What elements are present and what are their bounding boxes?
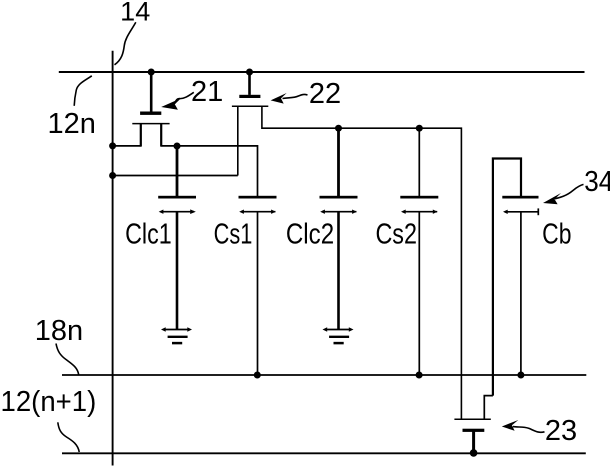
svg-text:Cs2: Cs2 bbox=[375, 219, 417, 251]
node dot Cs2 on line 18n bbox=[416, 372, 423, 379]
svg-text:22: 22 bbox=[309, 78, 341, 110]
arrowhead for label 34 bbox=[543, 193, 561, 204]
leader curve from label 18n bbox=[56, 344, 79, 375]
transistor Q22 drain stub bbox=[248, 71, 251, 95]
svg-text:14: 14 bbox=[120, 0, 150, 26]
transistor Q21 right source leg bbox=[160, 124, 162, 147]
capacitor Cb bottom lead down to line 18n bbox=[520, 212, 522, 375]
node dot wire A at Clc1 tap bbox=[174, 143, 181, 150]
transistor Q23 source bar bbox=[463, 429, 485, 432]
wire jog from staple to Q23 gate bbox=[484, 396, 493, 420]
node dot wire C at Cs2 bbox=[416, 125, 423, 132]
capacitor Cs1 bottom plate with end arrows bbox=[241, 211, 275, 213]
capacitor Clc2 bottom plate with end arrows bbox=[322, 211, 356, 213]
arrow tail for label 23 bbox=[513, 427, 545, 433]
ground symbol under Clc1 : bottom bar bbox=[172, 342, 182, 345]
svg-text:Clc2: Clc2 bbox=[286, 219, 334, 251]
capacitor Clc1 bottom lead to ground (thick) bbox=[176, 212, 179, 330]
capacitor Clc1 top lead (thick) bbox=[176, 146, 179, 196]
wire B (rail to Q22 gate leg) bbox=[113, 175, 238, 177]
svg-text:Cs1: Cs1 bbox=[214, 219, 253, 251]
arrow tail for label 34 bbox=[555, 184, 584, 198]
wire gate-line 12(n+1) (bottom horizontal rail) bbox=[62, 452, 586, 454]
leader curve from label 12(n+1) bbox=[58, 422, 79, 452]
arrowhead for label 22 bbox=[271, 93, 287, 104]
wire Cb staple (down-left of Cb to Q23 gate) bbox=[493, 159, 521, 396]
svg-text:18n: 18n bbox=[35, 315, 83, 347]
wire A left segment (rail to Q21 left leg) bbox=[113, 145, 141, 147]
wire gate-line 18n (middle horizontal rail) bbox=[62, 374, 586, 376]
capacitor Clc1 bottom plate with end arrows bbox=[161, 211, 195, 213]
arrow tail for label 21 bbox=[175, 92, 194, 103]
leader curve from label 14 bbox=[115, 22, 136, 65]
svg-text:Clc1: Clc1 bbox=[125, 219, 172, 251]
transistor Q23 gate channel line bbox=[454, 418, 490, 420]
node dot wire B at rail bbox=[109, 172, 116, 179]
ground symbol under Clc2 : top bar with end arrows bbox=[325, 329, 352, 331]
capacitor Cs2 bottom plate with end arrows bbox=[403, 211, 437, 213]
node dot Q21 drain on line 14 bbox=[148, 69, 155, 76]
capacitor Cs2 top plate bbox=[400, 196, 438, 199]
svg-text:Cb: Cb bbox=[542, 219, 571, 251]
capacitor Clc2 top lead (thick) bbox=[337, 128, 340, 196]
node dot wire A at rail bbox=[109, 142, 116, 149]
capacitor Clc2 bottom lead to ground (thick) bbox=[337, 212, 340, 330]
node dot Q22 drain on line 14 bbox=[246, 69, 253, 76]
capacitor Clc1 top plate bbox=[158, 196, 196, 199]
wire C (Q22 right leg to right column, down to Q23 gate) bbox=[262, 128, 462, 419]
transistor Q21 drain stub bbox=[150, 71, 153, 112]
svg-text:23: 23 bbox=[545, 415, 577, 447]
transistor Q22 drain bar bbox=[239, 95, 260, 98]
arrowhead for label 23 bbox=[502, 420, 519, 431]
transistor Q22 left source leg down to wire B bbox=[237, 106, 239, 175]
capacitor Cs1 bottom lead down to line 18n bbox=[257, 212, 259, 375]
transistor Q21 drain bar bbox=[140, 112, 161, 115]
capacitor Cb top plate bbox=[502, 196, 538, 199]
svg-text:21: 21 bbox=[191, 76, 223, 108]
transistor Q21 left source leg bbox=[140, 124, 142, 147]
ground symbol under Clc1 : middle bar bbox=[168, 336, 188, 338]
node dot Cb on line 18n bbox=[517, 372, 524, 379]
capacitor Clc2 top plate bbox=[320, 196, 358, 199]
capacitor Cb bottom plate with left arrow and right tick bbox=[505, 211, 539, 213]
node dot wire C at Clc2 bbox=[335, 125, 342, 132]
svg-text:12(n+1): 12(n+1) bbox=[1, 386, 97, 418]
wire A right segment (Q21 right leg to Cs1 top corner) bbox=[161, 146, 257, 196]
capacitor Cs2 bottom lead down to line 18n bbox=[418, 212, 420, 375]
transistor Q22 right source leg bbox=[261, 106, 263, 129]
svg-text:34: 34 bbox=[584, 166, 610, 198]
node dot Q23 on line 12(n+1) bbox=[470, 449, 478, 457]
wire data line (left vertical rail) bbox=[112, 51, 114, 466]
ground symbol under Clc1 : top bar with end arrows bbox=[163, 329, 190, 331]
ground symbol under Clc2 : middle bar bbox=[329, 336, 349, 338]
capacitor Cs1 top plate bbox=[239, 196, 277, 199]
wire gate-line 14 (top horizontal rail) bbox=[59, 71, 585, 73]
leader curve from label 12n bbox=[74, 76, 92, 106]
transistor Q22 gate channel line bbox=[232, 105, 268, 107]
svg-text:12n: 12n bbox=[48, 108, 96, 140]
ground symbol under Clc2 : bottom bar bbox=[334, 342, 344, 345]
transistor Q21 gate channel line bbox=[132, 123, 169, 125]
arrowhead for label 21 bbox=[161, 98, 181, 109]
capacitor Cs2 top lead bbox=[418, 128, 420, 196]
node dot Cs1 on line 18n bbox=[254, 372, 261, 379]
transistor Q23 source stub down to line 12(n+1) bbox=[472, 432, 475, 454]
arrow tail for label 22 bbox=[283, 94, 308, 98]
